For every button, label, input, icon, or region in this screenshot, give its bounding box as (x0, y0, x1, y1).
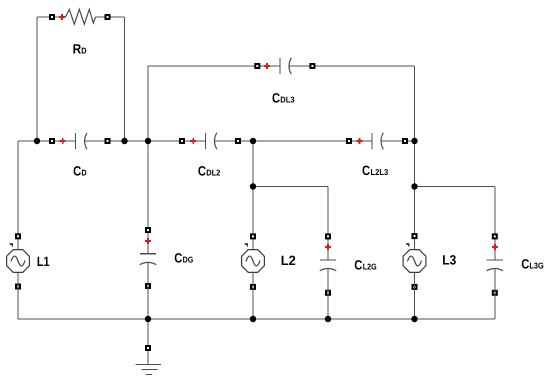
wire CL3G bottom to bus (494, 269, 496, 320)
capacitor CL2L3 plates (372, 133, 383, 149)
wire ground stem lower (147, 351, 149, 365)
capacitor CDG pin square bottom (145, 283, 151, 289)
capacitor CL3G pin square bottom (492, 290, 498, 296)
junction dot L3 on bottom bus (411, 316, 417, 322)
svg-text:R: R (73, 41, 82, 56)
resistor RD pin square right (105, 14, 111, 20)
wire branch L2 to CL2G horizontal (253, 186, 328, 188)
wire ground stem upper (147, 319, 149, 345)
svg-text:L2: L2 (281, 253, 296, 268)
svg-text:L1: L1 (37, 254, 50, 269)
wire bottom bus (18, 318, 495, 320)
wire main bus left segment (18, 140, 76, 142)
svg-text:D: D (81, 168, 86, 178)
svg-text:C: C (354, 258, 362, 273)
svg-text:L3: L3 (442, 253, 456, 268)
wire CL3G column down to top plate (494, 187, 496, 260)
junction dot CDG column on bus (145, 138, 151, 144)
wire CDL3 row horizontal right (289, 65, 415, 67)
junction dot CL2G on bottom bus (325, 316, 331, 322)
wire main bus right segment (381, 140, 415, 142)
capacitor CL2L3 plus polarity mark (357, 138, 363, 144)
capacitor CDL3 plates (280, 58, 291, 74)
junction dot RD left on bus (34, 138, 40, 144)
wire top loop horizontal right (96, 16, 125, 18)
svg-text:C: C (272, 91, 280, 106)
wire CL2G column down to top plate (327, 187, 329, 260)
source L2 sine wave (246, 256, 260, 266)
capacitor CDG plates (140, 254, 156, 265)
capacitor CD plates (76, 133, 87, 149)
svg-text:C: C (174, 251, 182, 266)
source L2 octagon body (242, 250, 265, 273)
svg-text:C: C (73, 164, 81, 179)
wire top loop horizontal left (37, 16, 66, 18)
source L1 octagon body (7, 250, 30, 273)
source L1 pin square bottom (15, 284, 21, 290)
ground symbol bars (136, 365, 162, 375)
capacitor CD plus polarity mark (60, 138, 66, 144)
wire L1 column from bus to source (17, 141, 19, 250)
junction dot L2 column on bus (250, 138, 256, 144)
capacitor CDL3 pin square left (254, 63, 260, 69)
svg-text:C: C (362, 163, 370, 178)
source L3 pin square bottom (412, 284, 418, 290)
resistor RD plus polarity mark (59, 14, 65, 20)
svg-text:L3G: L3G (529, 261, 544, 271)
capacitor CDL3 pin square right (309, 63, 315, 69)
wire column x148 from CDL3 row to CDG top plate (147, 66, 149, 254)
svg-text:L2L3: L2L3 (371, 167, 389, 177)
capacitor CDL2 plus polarity mark (190, 138, 196, 144)
wire CL2G bottom to bus (327, 269, 329, 320)
capacitor CDL3 plus polarity mark (264, 63, 270, 69)
junction dot L3 branch (411, 183, 417, 189)
capacitor CL3G plates (487, 260, 503, 271)
source L1 sine wave (11, 256, 25, 266)
wire RD right vertical (124, 17, 126, 141)
source L2 arrow marker (245, 243, 248, 246)
capacitor CD pin square left (49, 138, 55, 144)
svg-text:DG: DG (183, 255, 194, 265)
wire L1 bottom to bus (17, 273, 19, 320)
wire CDG bottom to bus (147, 262, 149, 319)
wire RD left vertical (36, 17, 38, 141)
capacitor CD pin square right (105, 138, 111, 144)
source L2 pin square bottom (250, 284, 256, 290)
capacitor CL2L3 pin square right (402, 138, 408, 144)
wire column x414.5 from CDL3 row down to L3 (414, 66, 416, 250)
source L3 arrow marker (406, 243, 409, 246)
ground pin square (145, 345, 151, 351)
capacitor CL3G pin square top (492, 233, 498, 239)
wire L3 bottom to bus (414, 273, 416, 320)
svg-text:D: D (81, 45, 86, 55)
capacitor CL2G plus polarity mark (325, 244, 331, 250)
capacitor CDL2 pin square left (179, 138, 185, 144)
capacitor CDL2 pin square right (235, 138, 241, 144)
junction dot L2 branch (250, 183, 256, 189)
wire CDL3 row horizontal left (148, 65, 280, 67)
svg-text:DL2: DL2 (206, 168, 220, 178)
svg-text:L2G: L2G (363, 262, 377, 272)
source L3 sine wave (408, 256, 422, 266)
capacitor CDL2 plates (206, 133, 217, 149)
source L1 pin square top (15, 233, 21, 239)
capacitor CL2G pin square top (325, 233, 331, 239)
capacitor CDG pin square top (145, 227, 151, 233)
source L1 arrow marker (10, 243, 13, 246)
junction dot L2 on bottom bus (250, 316, 256, 322)
capacitor CDG plus polarity mark (145, 238, 151, 244)
resistor RD zigzag (66, 9, 96, 24)
source L2 pin square top (250, 233, 256, 239)
source L3 octagon body (403, 250, 426, 273)
capacitor CL3G plus polarity mark (492, 244, 498, 250)
capacitor CL2L3 pin square left (346, 138, 352, 144)
junction dot L3 column on bus (411, 138, 417, 144)
wire L2 column from bus down (252, 141, 254, 250)
svg-text:DL3: DL3 (280, 95, 294, 105)
wire branch L3 to CL3G horizontal (415, 186, 495, 188)
capacitor CL2G pin square bottom (325, 290, 331, 296)
capacitor CL2G plates (320, 260, 336, 271)
wire main bus middle-right segment (215, 140, 373, 142)
wire L2 bottom to bus (252, 273, 254, 320)
resistor RD pin square left (49, 14, 55, 20)
wire main bus middle segment (85, 140, 206, 142)
svg-text:C: C (521, 257, 529, 272)
source L3 pin square top (412, 233, 418, 239)
junction dot ground on bottom bus (145, 316, 151, 322)
svg-text:C: C (198, 164, 206, 179)
junction dot RD right on bus (121, 138, 127, 144)
